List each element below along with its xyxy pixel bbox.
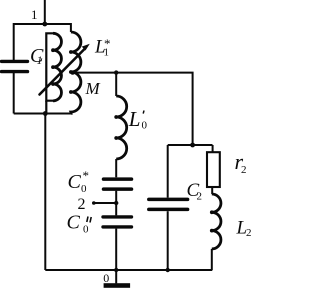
ground bar bbox=[104, 283, 131, 288]
wire L0 top lead bbox=[115, 73, 117, 96]
junction at node 1 bbox=[42, 22, 47, 27]
wire top rail with corner into right winding bbox=[14, 24, 71, 32]
inductor L1 right winding bbox=[71, 32, 81, 114]
svg-text:0: 0 bbox=[142, 120, 148, 132]
C0'' double prime bbox=[87, 217, 91, 223]
inductor L2 bbox=[212, 194, 221, 249]
svg-text:0: 0 bbox=[83, 224, 89, 236]
node 2 terminal dot bbox=[92, 201, 96, 205]
node 1 terminal stub bbox=[44, 0, 46, 24]
junction dot left bbox=[43, 111, 48, 116]
inductor L0 bbox=[116, 96, 127, 159]
svg-text:0: 0 bbox=[103, 271, 109, 285]
wire C2 bottom lead bbox=[167, 211, 169, 270]
svg-text:C: C bbox=[68, 171, 82, 193]
transformer core bar bbox=[46, 33, 53, 100]
L0 prime mark bbox=[142, 111, 145, 114]
svg-text:2: 2 bbox=[78, 196, 86, 213]
wire C1 bottom lead bbox=[13, 73, 15, 114]
svg-text:1: 1 bbox=[31, 7, 38, 22]
wire lower-left horizontal bbox=[14, 113, 73, 115]
junction on right wire bbox=[190, 143, 195, 148]
wire r2 to L2 bbox=[211, 187, 213, 194]
ground lead bbox=[115, 270, 117, 283]
svg-text:M: M bbox=[85, 79, 101, 98]
core bar lower lead bbox=[45, 101, 47, 114]
node 0 label bbox=[103, 271, 109, 285]
node 1 label bbox=[31, 7, 38, 22]
junction dot at L0 branch bbox=[114, 70, 118, 74]
svg-text:2: 2 bbox=[246, 227, 252, 239]
wire right horizontal bbox=[168, 144, 213, 146]
wire tap to the right bbox=[72, 73, 192, 145]
wire L0 bottom lead bbox=[115, 159, 117, 177]
label C0'' bbox=[67, 212, 90, 236]
label L2 bbox=[236, 218, 252, 240]
label L1 bbox=[94, 36, 111, 59]
wire C2 top lead bbox=[167, 145, 169, 198]
svg-text:1: 1 bbox=[37, 53, 43, 67]
node 2 stub wire bbox=[94, 202, 116, 204]
resistor r2 bbox=[207, 152, 220, 187]
label C2 bbox=[187, 180, 203, 203]
tap junction blob bbox=[70, 70, 74, 74]
svg-text:L: L bbox=[128, 107, 141, 131]
wire bottom rail bbox=[45, 269, 212, 271]
wire L2 bottom lead bbox=[211, 249, 213, 270]
junction at node 2 bbox=[114, 201, 118, 205]
capacitor C0' bbox=[104, 179, 132, 189]
label r2 bbox=[235, 149, 247, 176]
capacitor C0'' bbox=[103, 217, 132, 227]
junction at ground node bbox=[114, 268, 118, 272]
wire r2 top lead bbox=[212, 145, 214, 152]
label M bbox=[85, 79, 101, 98]
label C0' bbox=[68, 168, 90, 195]
node 2 label bbox=[78, 196, 86, 213]
capacitor C2 bbox=[149, 199, 188, 209]
svg-text:2: 2 bbox=[197, 191, 203, 203]
wire between C0' and C0'' bbox=[115, 191, 117, 216]
wire left drop to bottom rail bbox=[44, 114, 46, 271]
inductor L1 left winding bbox=[53, 33, 61, 101]
wire C0'' bottom lead bbox=[115, 229, 117, 270]
svg-text:C: C bbox=[67, 212, 81, 234]
junction C2 at bottom rail bbox=[166, 268, 170, 272]
svg-text:*: * bbox=[83, 168, 90, 183]
variable-inductor arrow bbox=[40, 49, 85, 95]
svg-text:*: * bbox=[104, 36, 111, 51]
wire left drop to C1 bbox=[13, 23, 15, 60]
svg-text:2: 2 bbox=[241, 164, 247, 176]
label L0 bbox=[128, 107, 148, 132]
capacitor C1 bbox=[2, 61, 28, 71]
svg-text:0: 0 bbox=[81, 183, 87, 195]
